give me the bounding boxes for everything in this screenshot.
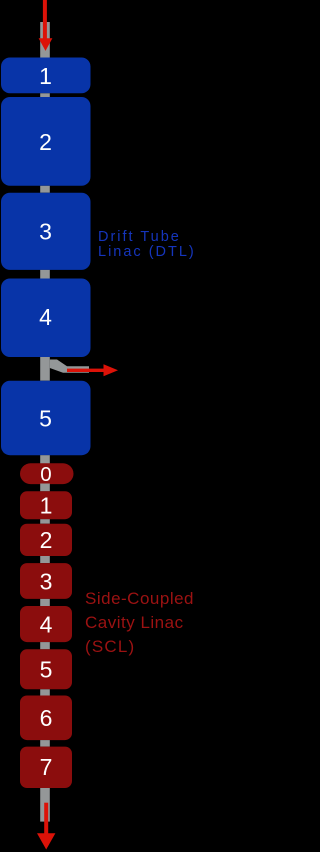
svg-text:Side-Coupled: Side-Coupled: [85, 589, 194, 608]
wire: pipe stub 2-3: [40, 556, 50, 563]
svg-text:Linac (DTL): Linac (DTL): [98, 244, 196, 260]
DTL tank 4: [1, 279, 91, 358]
wire: branch elbow to the right: [50, 360, 89, 373]
svg-text:2: 2: [39, 129, 52, 155]
svg-text:Drift Tube: Drift Tube: [98, 229, 181, 245]
SCL module 6: [20, 696, 72, 741]
wire: beam pipe bottom segment: [40, 788, 50, 822]
svg-text:1: 1: [40, 493, 53, 519]
svg-text:(SCL): (SCL): [85, 637, 135, 656]
svg-text:5: 5: [39, 405, 52, 431]
SCL module 0: [20, 463, 74, 484]
svg-text:Cavity Linac: Cavity Linac: [85, 613, 184, 632]
svg-text:3: 3: [39, 219, 52, 245]
label: Side-Coupled Cavity Linac (SCL): [85, 589, 194, 656]
wire: pipe stub 5-0: [40, 455, 50, 463]
svg-text:0: 0: [40, 463, 51, 486]
wire: pipe stub 6-7: [40, 740, 50, 747]
SCL module 1: [20, 491, 72, 519]
wire: beam pipe top segment: [40, 22, 50, 58]
svg-text:5: 5: [40, 657, 53, 683]
SCL module 4: [20, 606, 72, 642]
wire: pipe stub 1-2: [40, 519, 50, 524]
branch arrow (right, red): [67, 364, 118, 376]
exit arrow (bottom, red): [37, 803, 55, 850]
wire: pipe stub 3-4: [40, 270, 50, 279]
wire: pipe stub 2-3: [40, 186, 50, 193]
SCL module 7: [20, 747, 72, 788]
DTL tank 3: [1, 193, 91, 270]
svg-text:3: 3: [40, 568, 53, 594]
wire: pipe stub 5-6: [40, 689, 50, 695]
svg-text:4: 4: [40, 611, 53, 637]
wire: pipe stub 4-5: [40, 642, 50, 649]
wire: pipe stub 1-2: [40, 93, 50, 97]
injection arrow (top, red): [39, 0, 53, 51]
wire: pipe stub 0-1: [40, 484, 50, 492]
wire: pipe segment 4-5: [40, 357, 50, 381]
label: Drift Tube Linac (DTL): [98, 229, 196, 260]
DTL tank 5: [1, 381, 91, 456]
svg-text:7: 7: [40, 754, 53, 780]
DTL tank 1: [1, 58, 91, 94]
SCL module 5: [20, 649, 72, 689]
SCL module 2: [20, 524, 72, 556]
svg-text:2: 2: [40, 527, 53, 553]
svg-text:6: 6: [40, 705, 53, 731]
svg-text:1: 1: [39, 63, 52, 89]
DTL tank 2: [1, 97, 91, 186]
svg-text:4: 4: [39, 304, 52, 330]
SCL module 3: [20, 563, 72, 599]
wire: pipe stub 3-4: [40, 599, 50, 606]
